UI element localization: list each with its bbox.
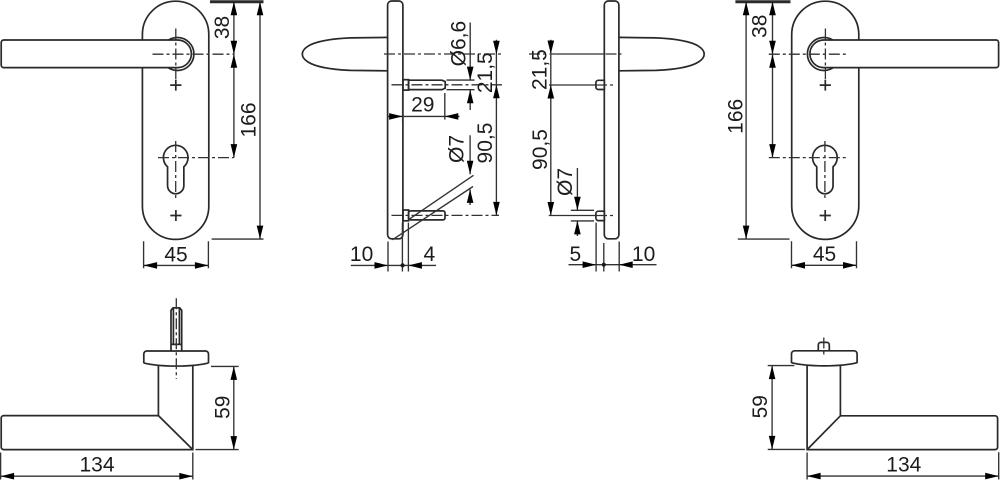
svg-text:29: 29 [411,94,434,117]
svg-text:45: 45 [164,243,187,266]
svg-text:166: 166 [237,102,260,137]
svg-text:21,5: 21,5 [529,49,552,90]
svg-text:Ø7: Ø7 [554,168,577,196]
svg-text:166: 166 [725,99,748,134]
svg-text:59: 59 [212,396,235,419]
svg-text:45: 45 [813,243,836,266]
svg-text:4: 4 [424,243,436,266]
svg-text:5: 5 [570,243,582,266]
svg-text:134: 134 [79,454,114,477]
svg-text:134: 134 [886,454,921,477]
svg-text:38: 38 [211,16,234,39]
svg-text:90,5: 90,5 [474,123,497,164]
svg-text:90,5: 90,5 [529,129,552,170]
svg-text:Ø6,6: Ø6,6 [447,21,470,67]
svg-text:10: 10 [350,243,373,266]
svg-text:10: 10 [632,243,655,266]
svg-text:21,5: 21,5 [474,52,497,93]
svg-text:Ø7: Ø7 [445,135,468,163]
svg-text:59: 59 [749,395,772,418]
svg-text:38: 38 [748,15,771,38]
